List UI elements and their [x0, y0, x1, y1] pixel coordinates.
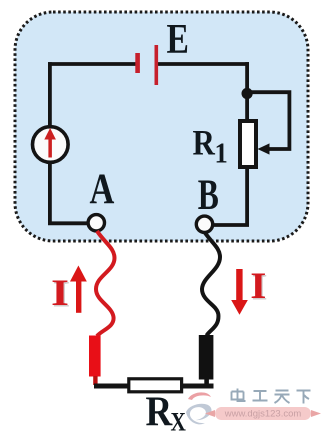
current arrow up (left): [70, 266, 87, 313]
dashed enclosure box: [15, 12, 308, 241]
watermark url pill: [205, 407, 321, 420]
red test lead wavy wire: [96, 231, 115, 336]
black test lead wavy wire: [202, 233, 220, 336]
wire left vertical upper: [48, 62, 52, 128]
svg-text:B: B: [198, 171, 219, 219]
svg-text:R: R: [193, 123, 216, 163]
label I left: [51, 273, 70, 315]
wire top-right horizontal: [157, 62, 249, 66]
bottom wire right: [182, 384, 214, 389]
wire right vertical from top to R1: [245, 62, 249, 121]
svg-text:X: X: [171, 409, 186, 434]
black banana plug: [199, 335, 214, 380]
galvanometer red arrow: [44, 128, 56, 158]
svg-text:1: 1: [215, 138, 228, 169]
svg-text:I: I: [51, 273, 69, 314]
wire into terminal A: [48, 221, 89, 225]
wire top-left horizontal: [48, 62, 136, 66]
current arrow down (right): [231, 269, 248, 315]
battery E plate short: [135, 53, 140, 73]
junction node dot: [242, 88, 253, 99]
wire corner to terminal B: [212, 223, 249, 227]
svg-text:A: A: [90, 165, 115, 213]
wire left vertical lower: [48, 161, 52, 222]
battery E plate long: [155, 45, 159, 85]
resistor R1 body: [240, 121, 256, 167]
watermark logo swirl: [186, 392, 212, 424]
label I right: [250, 266, 267, 308]
svg-text:R: R: [146, 388, 173, 434]
terminal A circle: [88, 215, 104, 231]
watermark text 电工天下 (simplified strokes): [232, 389, 311, 404]
svg-text:www.dgjs123.com: www.dgjs123.com: [224, 409, 302, 420]
svg-text:E: E: [167, 16, 189, 63]
red plug pin: [93, 376, 97, 385]
wire R1 bottom to corner: [245, 168, 249, 226]
resistor Rx body: [129, 379, 182, 392]
rheostat loop wire: [247, 92, 289, 149]
terminal B circle: [196, 216, 212, 232]
galvanometer circle: [33, 127, 69, 163]
red banana plug: [89, 336, 101, 377]
bottom wire left: [94, 384, 128, 389]
svg-text:I: I: [250, 266, 266, 307]
rheostat wiper arrowhead: [258, 143, 270, 154]
black plug pin: [204, 379, 209, 386]
